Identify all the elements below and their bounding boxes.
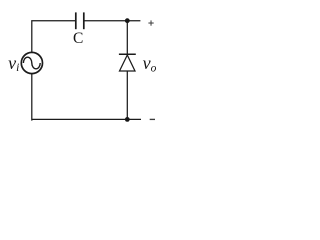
source circle — [21, 52, 42, 73]
wire: diode branch lower vertical (anode to bottom node) — [126, 71, 128, 119]
wire: top-right segment from capacitor right plate past node to + terminal — [84, 20, 141, 22]
capacitor C left plate — [75, 12, 77, 29]
wire: top-left segment from source up and right to capacitor left plate — [32, 21, 76, 53]
source sine wave — [23, 57, 40, 69]
node dot top — [125, 18, 130, 23]
svg-text:vi: vi — [8, 53, 19, 74]
node dot bottom — [125, 117, 130, 122]
+ terminal — [148, 20, 153, 25]
wire: left vertical below source — [31, 74, 33, 120]
capacitor C right plate — [83, 12, 85, 29]
- terminal — [150, 118, 155, 120]
svg-text:C: C — [73, 30, 83, 47]
wire: bottom horizontal to - terminal — [32, 118, 141, 120]
wire: diode branch upper vertical (node to cathode bar) — [126, 21, 128, 55]
diode triangle — [120, 55, 136, 71]
svg-text:vo: vo — [143, 53, 157, 75]
diode cathode bar — [119, 53, 136, 55]
